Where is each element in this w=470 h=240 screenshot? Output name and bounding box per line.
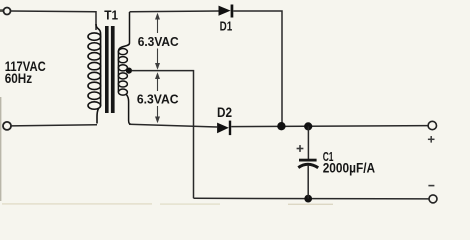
svg-text:2000µF/A: 2000µF/A [323, 160, 376, 175]
svg-text:6.3VAC: 6.3VAC [138, 34, 179, 49]
svg-text:60Hz: 60Hz [5, 71, 33, 86]
label: 117VAC 60Hz [5, 59, 46, 86]
output terminal + [428, 121, 436, 129]
diode D1 [219, 5, 234, 18]
svg-text:6.3VAC: 6.3VAC [137, 92, 179, 107]
diode D2 [217, 121, 231, 136]
label: + (output polarity) [428, 136, 435, 143]
node: secondary center tap [126, 68, 132, 74]
transformer T1 secondary winding [118, 12, 131, 124]
wire: capacitor C1 negative lead [307, 165, 309, 199]
wire: secondary bottom to D2 anode [129, 124, 217, 127]
svg-text:D2: D2 [217, 105, 232, 120]
node: junction of D1 and D2 outputs [277, 122, 285, 130]
svg-text:T1: T1 [104, 7, 118, 22]
dimension arrow: lower 6.3VAC span [155, 72, 160, 123]
label: capacitor C1 polarity + [297, 145, 304, 152]
capacitor C1 [298, 159, 318, 168]
transformer T1 primary winding [88, 24, 101, 124]
wire: secondary top to D1 anode [130, 10, 219, 13]
output terminal - [429, 195, 437, 203]
node: junction C1 negative lead on ground rail [304, 195, 312, 203]
wire: capacitor C1 positive lead [307, 126, 309, 159]
dimension arrow: upper 6.3VAC span [155, 13, 160, 70]
wire: center tap down to ground rail [132, 71, 194, 199]
wire: D2 cathode to output + terminal [231, 126, 428, 127]
wire: bottom ground rail to output - terminal [194, 197, 430, 200]
svg-text:D1: D1 [220, 18, 233, 33]
decorative scan artifacts (unlabeled background marks) [0, 9, 333, 205]
label: - (output polarity) [428, 185, 434, 187]
wire: bottom input terminal to transformer primary bottom [11, 125, 97, 126]
wire: top input terminal to transformer primary top [11, 11, 96, 30]
wire: D1 cathode right and down to output junction [233, 11, 282, 124]
input terminal (117VAC bottom) [3, 122, 11, 130]
input terminal (117VAC top) [4, 8, 11, 15]
node: junction at capacitor C1 positive lead [304, 122, 312, 130]
transformer T1 core [105, 26, 115, 113]
